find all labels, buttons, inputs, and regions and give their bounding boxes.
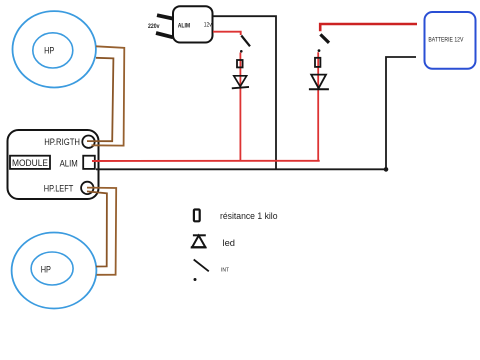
switch contact dot branch 1 bbox=[240, 50, 243, 53]
speaker HP top-left inner cone bbox=[33, 33, 73, 68]
speaker HP bottom-left inner cone bbox=[31, 252, 73, 285]
svg-text:HP.LEFT: HP.LEFT bbox=[44, 183, 74, 193]
svg-text:12v: 12v bbox=[204, 22, 213, 29]
supply input stub lower bbox=[156, 33, 173, 37]
resistor R branch 1 bbox=[237, 60, 243, 67]
svg-text:INT: INT bbox=[221, 268, 230, 274]
svg-text:ALIM: ALIM bbox=[60, 159, 78, 169]
terminal ALIM square bbox=[83, 156, 95, 169]
wire red: positive bus from module ALIM terminal bbox=[92, 160, 320, 162]
svg-text:HP.RIGTH: HP.RIGTH bbox=[44, 137, 80, 147]
wire black: ground bus from module to battery column bbox=[96, 168, 386, 170]
module box bbox=[8, 130, 99, 199]
label MODULE boxed bbox=[10, 156, 50, 169]
wire red: supply 12v red output bbox=[213, 32, 241, 35]
wire red: branch 1 vertical through resistor and led bbox=[239, 53, 241, 161]
speaker HP bottom-left outer cone bbox=[12, 233, 97, 309]
wire brown: top speaker upper lead to HP.RIGTH terminal (outer path) bbox=[92, 46, 125, 145]
svg-text:résitance 1 kilo: résitance 1 kilo bbox=[220, 211, 278, 221]
legend resistor symbol bbox=[194, 210, 200, 222]
switch INT branch 1 bbox=[241, 36, 250, 47]
battery box bbox=[425, 12, 476, 69]
wire red: battery positive lead bbox=[320, 24, 417, 31]
supply input stub upper bbox=[157, 15, 173, 18]
svg-text:ALIM: ALIM bbox=[178, 23, 191, 30]
power supply ALIM box bbox=[173, 6, 213, 42]
wire red: branch 2 vertical through resistor and led bbox=[317, 52, 319, 161]
svg-text:HP: HP bbox=[44, 45, 54, 56]
led D branch 1 bbox=[234, 76, 247, 87]
terminal HP.LEFT circle bbox=[81, 182, 93, 194]
resistor R branch 2 bbox=[315, 58, 320, 67]
switch INT branch 2 bbox=[320, 34, 329, 42]
wire brown: HP.LEFT terminal to bottom speaker (inner path) bbox=[87, 191, 107, 266]
terminal HP.RIGTH circle bbox=[82, 136, 94, 148]
svg-text:220v: 220v bbox=[148, 23, 160, 30]
legend switch dot bbox=[194, 278, 197, 281]
led D branch 2 bbox=[311, 75, 326, 89]
wire brown: HP.LEFT terminal to bottom speaker (outer path) bbox=[87, 188, 116, 275]
switch contact dot branch 2 bbox=[318, 49, 321, 52]
junction black bus / battery bbox=[384, 167, 389, 172]
legend led symbol bbox=[193, 234, 206, 236]
speaker HP top-left outer cone bbox=[13, 11, 96, 87]
svg-text:MODULE: MODULE bbox=[12, 158, 48, 168]
svg-text:led: led bbox=[223, 238, 236, 248]
wire black: battery negative lead bbox=[386, 57, 416, 170]
svg-text:HP: HP bbox=[41, 264, 51, 275]
legend switch symbol bbox=[194, 260, 209, 272]
svg-text:BATTERIE 12V: BATTERIE 12V bbox=[428, 36, 464, 43]
wire black: supply 12v output to vertical drop bbox=[213, 16, 276, 169]
wire brown: top speaker lower lead to HP.RIGTH terminal (inner path) bbox=[87, 58, 113, 141]
